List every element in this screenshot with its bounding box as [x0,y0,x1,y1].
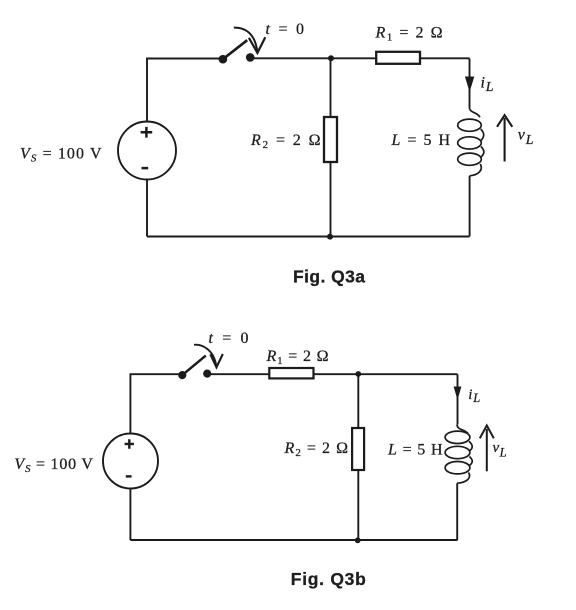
voltage arrow vL (circuit A) [497,115,512,161]
voltage source VS (circuit A) [118,122,176,180]
resistor R2 (circuit B) [352,428,364,470]
wire: left vertical lower, source to bottom (circuit A) [146,179,148,236]
svg-text:VS = 100 V: VS = 100 V [14,456,93,475]
wire: right vertical upper segment (circuit A) [469,58,471,107]
node: bottom junction dot (circuit B) [355,537,361,543]
svg-text:L = 5 H: L = 5 H [387,442,443,459]
wire: R1 to top-right corner (circuit B) [314,373,458,375]
inductor L coil (circuit A) [458,107,484,176]
voltage source VS (circuit B) [103,434,158,489]
wire: middle branch upper segment to R2 (circuit A) [330,58,332,117]
svg-text:vL: vL [493,440,507,459]
wire: left vertical lower, source to bottom (circuit B) [129,488,131,540]
wire: switch to R1 (circuit B) [207,373,269,375]
svg-text:t = 0: t = 0 [266,21,305,38]
wire: top middle segment, switch to R1 (circuit A) [250,57,376,59]
wire: top-left segment from corner to switch (circuit B) [130,374,182,434]
current arrow iL (circuit A) [465,77,474,93]
voltage arrow vL (circuit B) [480,426,494,472]
svg-text:L = 5 H: L = 5 H [391,132,451,149]
inductor L coil (circuit B) [445,425,472,484]
wire: R1 to top-right corner (circuit A) [420,57,470,59]
wire: right vertical lower segment below coil (circuit B) [456,483,458,540]
node: top junction dot at R2 branch (circuit B) [355,371,361,377]
wire: middle branch lower segment (circuit A) [330,162,332,237]
svg-text:R1 = 2 Ω: R1 = 2 Ω [375,25,443,44]
svg-text:VS = 100 V: VS = 100 V [20,146,102,165]
wire: middle branch upper segment to R2 (circuit B) [357,374,359,428]
svg-text:R1 = 2 Ω: R1 = 2 Ω [266,348,329,367]
svg-text:R2 = 2 Ω: R2 = 2 Ω [284,440,349,459]
wire: top-left segment from corner to switch (circuit A) [147,59,223,123]
svg-text:Fig. Q3b: Fig. Q3b [291,569,366,589]
switch closing arrow (curved annotation) circuit A [234,28,265,53]
svg-text:t = 0: t = 0 [209,330,249,347]
wire: right vertical lower segment below coil (circuit A) [469,176,471,237]
node: top junction dot at R2 branch (circuit A) [328,55,334,61]
current arrow iL (circuit B) [454,387,462,401]
resistor R2 (circuit A) [324,117,337,162]
switch SW1 (t=0) circuit A: contact dots and blade [219,40,255,63]
node: bottom junction dot (circuit A) [327,234,333,240]
wire: bottom wire (circuit B) [130,539,457,541]
svg-text:vL: vL [518,127,534,149]
switch closing arrow (curved annotation) circuit B [194,345,223,368]
wire: middle branch lower segment (circuit B) [357,470,359,540]
svg-text:iL: iL [468,387,480,405]
svg-text:Fig. Q3a: Fig. Q3a [293,266,365,286]
svg-text:R2 = 2 Ω: R2 = 2 Ω [250,132,321,151]
resistor R1 (circuit A) [376,52,420,64]
resistor R1 (circuit B) [269,368,313,378]
switch SW2 (t=0) circuit B: contact dots and blade [178,356,211,380]
wire: bottom wire (circuit A) [147,236,470,238]
wire: right vertical upper segment (circuit B) [457,374,459,424]
svg-text:iL: iL [481,75,494,95]
